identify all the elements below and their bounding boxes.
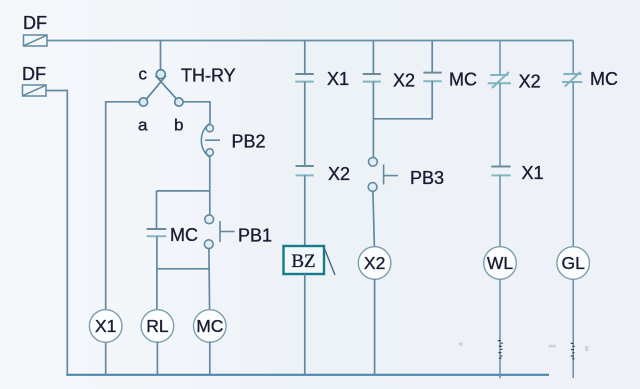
svg-text:X2: X2 [519,72,541,92]
svg-text:TH-RY: TH-RY [181,66,236,86]
fuse DF2 [23,85,47,96]
wire from node a to X1 coil branch [106,102,141,311]
contact MC (NC, branch 5) [562,72,582,87]
wire PB3 to X2 coil [373,191,375,247]
wire junction tie PB2-branch to MC-contact branch [157,190,210,192]
svg-text:a: a [138,116,148,135]
svg-text:X2: X2 [393,71,415,91]
contact X2 (NO, branch 2) [363,74,381,82]
wire X1 coil to bottom bus [105,341,107,375]
wire bus to X1 contact (branch 1) [304,41,306,75]
relay contact TH-RY [139,70,183,107]
svg-text:b: b [174,116,183,135]
svg-text:GL: GL [562,253,586,273]
svg-text:DF: DF [23,13,47,33]
wire X2 contact to PB3 [372,82,374,158]
wire bus to X2 contact (branch 2) [372,41,374,75]
svg-text:DF: DF [22,64,46,84]
wire MC contact down to junction [373,81,432,119]
pushbutton PB1 (NO) [204,215,234,249]
wire bus to MC contact (branch 3) [431,41,433,73]
svg-text:PB2: PB2 [232,132,266,152]
wire PB1 to MC coil [208,249,211,311]
wire X2 coil to bottom bus [374,279,376,375]
wire X1 contact to WL lamp [499,175,501,247]
svg-text:MC: MC [170,225,198,245]
wire top bus L1 [47,40,573,42]
watermark marks on WL wire [498,340,503,359]
wire WL lamp to bottom bus [499,279,501,379]
wire BZ to bottom bus [304,274,306,375]
wire DF2 to left rail [46,91,67,376]
wire bus to X2 NC contact (branch 4) [499,41,501,76]
lamp WL [484,247,517,280]
svg-text:X2: X2 [364,253,385,273]
contact X2 (NO, branch 1) [296,166,314,175]
wire junction tie RL branch to MC coil branch [157,268,209,270]
svg-text:X2: X2 [328,164,350,184]
lamp GL [557,247,590,280]
coil X2 [358,247,391,280]
wire RL coil to bottom bus [156,341,158,375]
coil MC [194,310,227,343]
contact X1 (NO, branch 4) [491,167,510,176]
wire GL lamp down [572,279,574,378]
watermark marks on GL wire [571,343,575,360]
svg-text:MC: MC [590,69,618,89]
wire MC contact branch upper [156,191,158,229]
coil RL [141,310,174,343]
svg-text:MC: MC [196,316,223,336]
wire MC coil to bottom bus [209,341,211,375]
pushbutton PB2 (NC) [201,124,220,157]
wire bottom bus L2 [66,374,549,376]
wire bus to TH-RY [160,41,162,71]
wire bus corner to MC NC contact (branch 5) [572,41,574,75]
contact X1 (NO) [295,74,314,82]
fuse DF1 [24,35,48,46]
svg-text:X1: X1 [327,69,349,89]
contact MC (NO, self-holding) [147,229,167,236]
svg-text:PB3: PB3 [410,168,444,188]
wire MC contact to RL coil [156,236,158,310]
wire X2 contact to buzzer BZ [304,175,306,246]
svg-text:X1: X1 [522,163,544,183]
wire X1 contact to X2 contact [304,82,306,166]
wire MC NC to GL lamp [572,82,574,247]
svg-text:X1: X1 [95,316,116,336]
wire X2 NC to X1 contact [499,83,501,166]
svg-text:WL: WL [487,253,514,273]
svg-text:BZ: BZ [291,251,315,272]
wire PB2 to PB1 [209,156,211,215]
contact X2 (NC, branch 4) [488,72,511,88]
svg-text:PB1: PB1 [238,226,272,246]
svg-text:RL: RL [146,316,169,336]
buzzer BZ [284,246,336,275]
pushbutton PB3 (NO) [368,157,398,191]
wire from node b to PB2 [183,102,210,125]
contact MC (NO, branch 3) [423,73,441,82]
svg-text:c: c [139,65,148,84]
svg-text:MC: MC [449,70,477,90]
faint watermark smudges [459,343,589,352]
coil X1 [89,310,122,343]
